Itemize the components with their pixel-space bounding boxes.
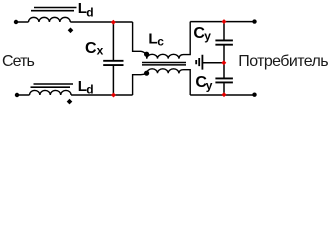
capacitor Cx plates bbox=[103, 61, 123, 65]
junction node bottom-right (red) bbox=[222, 92, 227, 97]
wire ground to junction bbox=[202, 62, 224, 64]
capacitor Cy top lead upper bbox=[223, 22, 225, 40]
wire top rail right bbox=[190, 21, 254, 23]
junction node bottom-left (red) bbox=[111, 93, 116, 98]
choke Lc core lines bbox=[142, 63, 186, 65]
inductor Ld bottom coil bbox=[30, 90, 72, 95]
capacitor Cy bottom lead upper bbox=[223, 63, 225, 78]
svg-text:x: x bbox=[97, 44, 104, 58]
terminal top-right bbox=[252, 19, 256, 23]
capacitor Cy top lead lower bbox=[223, 46, 225, 63]
svg-text:y: y bbox=[206, 78, 213, 92]
capacitor Cx lead upper bbox=[112, 22, 114, 60]
wire bottom-left bbox=[17, 94, 30, 96]
svg-text:Сеть: Сеть bbox=[2, 53, 35, 70]
terminal top-left bbox=[14, 20, 18, 24]
inductor Ld top core lines bbox=[31, 8, 77, 11]
svg-text:y: y bbox=[204, 29, 211, 43]
capacitor Cy bottom lead lower bbox=[223, 83, 225, 94]
inductor Ld top coil bbox=[29, 17, 71, 22]
ground symbol bbox=[196, 55, 202, 70]
svg-text:d: d bbox=[86, 5, 93, 19]
choke Lc bottom winding bbox=[147, 69, 179, 74]
inductor Ld bottom core lines bbox=[31, 84, 74, 87]
wire top-left bbox=[16, 21, 29, 23]
wire bottom rail left bbox=[71, 94, 133, 96]
wire bottom rail right bbox=[190, 94, 254, 96]
junction node top-left (red) bbox=[111, 20, 116, 25]
polarity diamond Ld top bbox=[68, 28, 74, 34]
polarity diamond Ld bottom bbox=[67, 99, 73, 105]
junction node top-right (red) bbox=[222, 19, 227, 24]
capacitor Cy top plates bbox=[215, 40, 233, 44]
choke Lc top winding exit bbox=[179, 22, 190, 59]
choke Lc bottom winding exit bbox=[179, 70, 190, 95]
wire from top rail down to Lc bbox=[133, 22, 147, 59]
terminal bottom-left bbox=[15, 93, 19, 97]
choke Lc top winding bbox=[147, 54, 179, 58]
svg-text:L: L bbox=[148, 30, 157, 47]
capacitor Cy bottom plates bbox=[215, 78, 233, 82]
capacitor Cx lead lower bbox=[112, 66, 114, 95]
polarity dot Lc top bbox=[144, 52, 149, 57]
wire top rail left bbox=[70, 21, 132, 23]
svg-text:C: C bbox=[85, 40, 97, 57]
terminal bottom-right bbox=[252, 93, 256, 97]
polarity dot Lc bottom bbox=[144, 71, 149, 76]
svg-text:c: c bbox=[157, 35, 164, 49]
svg-text:Потребитель: Потребитель bbox=[238, 53, 328, 70]
wire from bottom rail up to Lc bbox=[133, 73, 147, 95]
junction node mid-right (red) bbox=[221, 60, 226, 65]
